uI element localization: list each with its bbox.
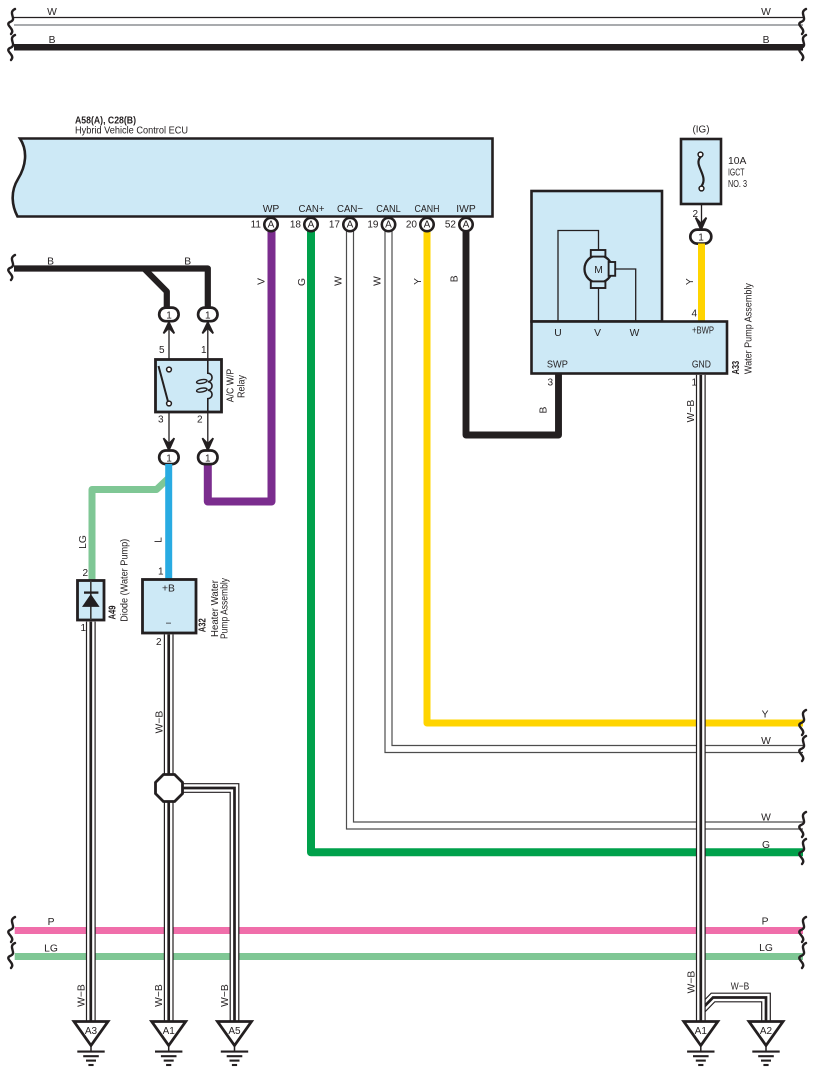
- name label Heater Water Pump Assembly: [210, 577, 230, 639]
- wire B top bus (black wire, horizontal across top): [14, 44, 803, 51]
- A32 heater water pump assembly block: [143, 580, 197, 634]
- svg-text:19: 19: [367, 219, 379, 230]
- pin 11 connector A at ECU WP: [251, 218, 278, 231]
- svg-text:1: 1: [158, 567, 164, 578]
- svg-text:IWP: IWP: [456, 204, 476, 215]
- svg-text:17: 17: [329, 219, 341, 230]
- svg-text:1: 1: [166, 311, 172, 322]
- svg-text:W−B: W−B: [686, 400, 697, 423]
- svg-text:P: P: [48, 917, 55, 928]
- wire W-B branch from junction to ground A5: [180, 788, 235, 1021]
- svg-text:A1: A1: [695, 1026, 708, 1037]
- svg-text:SWP: SWP: [547, 359, 568, 370]
- svg-text:V: V: [257, 278, 268, 285]
- wire V (violet) from ECU pin WP 11 down and left to relay pin 2 connector: [208, 231, 272, 502]
- svg-text:NO. 3: NO. 3: [728, 179, 747, 190]
- svg-text:CAN−: CAN−: [337, 204, 363, 215]
- relay switch contact: [159, 366, 172, 406]
- svg-text:B: B: [184, 257, 191, 268]
- svg-text:G: G: [297, 278, 308, 286]
- svg-text:B: B: [763, 35, 770, 46]
- svg-text:A49: A49: [108, 605, 119, 619]
- svg-text:A5: A5: [228, 1026, 241, 1037]
- svg-text:2: 2: [197, 415, 203, 426]
- A33 water pump assembly terminal section block: [532, 322, 728, 374]
- svg-text:W−B: W−B: [77, 984, 88, 1007]
- svg-text:LG: LG: [44, 943, 58, 954]
- svg-text:P: P: [762, 917, 769, 928]
- break symbol top-left W bus: [8, 9, 15, 34]
- break symbol left P bus: [8, 917, 15, 942]
- svg-text:+BWP: +BWP: [692, 326, 714, 337]
- break symbol top-left B bus: [8, 35, 15, 60]
- svg-text:CANL: CANL: [376, 204, 401, 215]
- arrow into connector below fuse: [696, 218, 707, 230]
- svg-text:18: 18: [290, 219, 302, 230]
- wire B (black) from left edge to relay connectors: [14, 269, 208, 310]
- svg-text:IGCT: IGCT: [728, 168, 745, 179]
- svg-text:W−B: W−B: [154, 984, 165, 1007]
- internal wire W to motor: [615, 269, 636, 321]
- wire L (blue) from relay pin 3 connector to A32 pin +B: [165, 464, 172, 580]
- svg-text:W: W: [761, 813, 771, 824]
- svg-text:A: A: [424, 220, 431, 231]
- relay coil: [196, 360, 212, 413]
- wire Y (yellow) from fuse connector to A33 pin +BWP 4: [698, 244, 705, 323]
- svg-text:U: U: [554, 328, 561, 339]
- wire LG (light green) branch to diode A49: [92, 478, 169, 580]
- svg-text:52: 52: [445, 219, 457, 230]
- ECU block A58/C28 Hybrid Vehicle Control ECU: [13, 139, 493, 217]
- internal wire V to motor: [598, 288, 600, 321]
- pin 19 connector A at ECU CANL: [367, 218, 395, 231]
- svg-text:W: W: [761, 7, 771, 18]
- svg-text:A3: A3: [85, 1026, 98, 1037]
- svg-text:−: −: [165, 619, 171, 630]
- A33 water pump assembly motor section block: [532, 191, 663, 322]
- svg-text:W: W: [630, 328, 640, 339]
- svg-text:Diode (Water Pump): Diode (Water Pump): [120, 539, 131, 622]
- name label A/C W/P Relay: [226, 369, 248, 403]
- svg-text:A: A: [268, 220, 275, 231]
- svg-text:W−B: W−B: [687, 971, 698, 994]
- svg-text:Y: Y: [762, 710, 769, 721]
- wire W top bus (white wire, horizontal across top): [14, 18, 803, 26]
- wire W-B from A32 pin 2 to ground A1: [164, 635, 174, 1022]
- svg-text:A1: A1: [163, 1026, 176, 1037]
- svg-text:(IG): (IG): [693, 125, 710, 136]
- svg-text:A: A: [463, 220, 470, 231]
- svg-text:CANH: CANH: [415, 204, 440, 215]
- svg-text:1: 1: [205, 454, 211, 465]
- pin 20 connector A at ECU CANH: [406, 218, 434, 231]
- svg-text:W: W: [372, 276, 383, 286]
- svg-text:L: L: [154, 537, 165, 543]
- wire G (green) from ECU pin CAN+ 18 down then right to edge: [311, 231, 803, 852]
- svg-text:A33: A33: [731, 361, 742, 375]
- pin 17 connector A at ECU CAN-: [329, 218, 357, 231]
- svg-text:W−B: W−B: [155, 711, 166, 734]
- ground A1 (left): [152, 1022, 186, 1066]
- svg-text:Hybrid Vehicle Control ECU: Hybrid Vehicle Control ECU: [75, 125, 188, 136]
- svg-text:M: M: [594, 265, 603, 276]
- relay A/C W/P block: [156, 360, 222, 413]
- svg-text:W−B: W−B: [220, 984, 231, 1007]
- break symbol top-right W bus: [799, 9, 806, 34]
- svg-text:G: G: [762, 840, 770, 851]
- svg-text:GND: GND: [692, 359, 711, 370]
- fuse 10A IGCT NO. 3: [681, 139, 721, 204]
- svg-text:A: A: [308, 220, 315, 231]
- svg-text:3: 3: [547, 378, 553, 389]
- svg-text:WP: WP: [263, 204, 280, 215]
- wire Y (yellow) from ECU pin CANH 20 down then right to edge: [427, 231, 803, 723]
- svg-text:W: W: [761, 736, 771, 747]
- svg-text:LG: LG: [78, 535, 89, 549]
- svg-text:20: 20: [406, 219, 418, 230]
- wire W-B from A33 pin GND 1 to ground A1: [696, 375, 706, 1021]
- svg-text:A: A: [347, 220, 354, 231]
- svg-text:A32: A32: [198, 618, 209, 632]
- motor M (pump motor symbol): [585, 250, 616, 288]
- connector oval 1 below fuse: [690, 230, 711, 244]
- wire from relay pin 2 to connector below: [207, 412, 209, 452]
- arrow into connector below relay pin 3: [164, 438, 175, 450]
- wire W-B from diode A49 pin 1 to ground A3: [86, 622, 96, 1021]
- connector oval 1 above relay pin 5: [159, 308, 178, 322]
- connector oval 1 below relay pin 2: [198, 451, 217, 465]
- svg-text:B: B: [449, 275, 460, 282]
- internal wire U to motor: [558, 231, 599, 322]
- ground A5: [218, 1022, 252, 1066]
- svg-text:5: 5: [159, 345, 165, 356]
- wire P (pink) bus across bottom: [15, 927, 803, 934]
- wire W (white) from ECU pin CAN- 17 down then right to edge: [350, 231, 803, 826]
- svg-text:Relay: Relay: [237, 374, 248, 398]
- break symbol right W wire (CANL): [799, 736, 806, 761]
- wire W (white) from ECU pin CANL 19 down then right to edge: [389, 231, 804, 749]
- svg-text:2: 2: [82, 568, 88, 579]
- diode A49 (Water Pump): [78, 581, 105, 621]
- break symbol top-right B bus: [799, 35, 806, 60]
- svg-text:A: A: [385, 220, 392, 231]
- svg-text:1: 1: [698, 233, 704, 244]
- wire from relay pin 1 connector into relay: [207, 318, 209, 359]
- junction octagon on W-B wire: [156, 775, 183, 802]
- ground A3: [74, 1022, 108, 1066]
- svg-text:W: W: [47, 7, 57, 18]
- svg-text:W−B: W−B: [731, 982, 750, 993]
- break symbol right G wire: [799, 839, 806, 864]
- svg-text:B: B: [47, 257, 54, 268]
- connector oval 1 above relay pin 1: [198, 308, 217, 322]
- svg-text:3: 3: [158, 415, 164, 426]
- wire from fuse pin 2 to connector: [701, 204, 703, 229]
- svg-text:Y: Y: [685, 278, 696, 285]
- svg-text:LG: LG: [759, 943, 773, 954]
- svg-text:11: 11: [251, 219, 262, 230]
- wire from relay pin 3 to connector below: [168, 412, 170, 452]
- svg-text:2: 2: [156, 637, 162, 648]
- break symbol right P bus: [799, 917, 806, 942]
- svg-text:A/C W/P: A/C W/P: [226, 369, 237, 403]
- svg-text:1: 1: [201, 345, 207, 356]
- wire LG (light green) bus across bottom: [15, 953, 803, 960]
- connector oval 1 below relay pin 3: [159, 451, 178, 465]
- pin 18 connector A at ECU CAN+: [290, 218, 318, 231]
- arrow into connector above relay pin 5: [164, 322, 175, 333]
- svg-text:1: 1: [205, 311, 211, 322]
- break symbol left B wire: [8, 255, 15, 280]
- break symbol right W wire (CAN-): [799, 812, 806, 837]
- svg-text:4: 4: [691, 309, 697, 320]
- svg-text:B: B: [538, 406, 549, 413]
- arrow into connector above relay pin 1: [202, 322, 213, 333]
- svg-text:Pump Assembly: Pump Assembly: [220, 577, 231, 639]
- svg-text:Water Pump Assembly: Water Pump Assembly: [744, 282, 755, 374]
- svg-text:Y: Y: [413, 278, 424, 285]
- svg-text:1: 1: [80, 623, 86, 634]
- svg-text:10A: 10A: [728, 156, 746, 167]
- ground A1 (right): [684, 1022, 718, 1066]
- svg-text:CAN+: CAN+: [299, 204, 325, 215]
- break symbol right Y wire: [799, 710, 806, 735]
- wire from relay pin 5 connector into relay: [168, 318, 170, 359]
- wire B branch to relay pin 5 connector: [144, 269, 167, 310]
- svg-text:1: 1: [166, 454, 172, 465]
- svg-text:+B: +B: [162, 584, 175, 595]
- svg-text:W: W: [334, 276, 345, 286]
- break symbol left LG bus: [8, 943, 15, 968]
- svg-text:B: B: [49, 35, 56, 46]
- break symbol right LG bus: [799, 943, 806, 968]
- wire W-B branch from A33 ground wire to ground A2: [701, 998, 766, 1022]
- ground A2: [749, 1022, 783, 1066]
- pin 52 connector A at ECU IWP: [445, 218, 473, 231]
- svg-text:V: V: [594, 328, 601, 339]
- arrow into connector below relay pin 2: [202, 438, 213, 450]
- wire B (black) from ECU pin IWP 52 down, right, up to A33 pin SWP 3: [466, 231, 559, 435]
- svg-text:A2: A2: [760, 1026, 773, 1037]
